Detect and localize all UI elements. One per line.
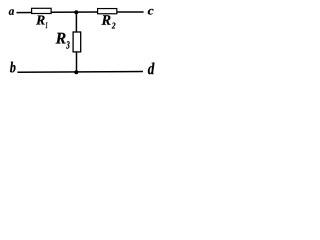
resistor R3 [73, 32, 81, 52]
label R3 [56, 33, 70, 49]
wire a to R1 [17, 11, 33, 13]
wire junction to R3 [75, 12, 77, 31]
label R2 [102, 15, 116, 28]
wire R1 to R2 [51, 11, 97, 13]
junction node bottom [74, 70, 78, 74]
wire R3 to bottom junction [76, 52, 78, 72]
node c [148, 9, 154, 15]
wire R2 to c [117, 11, 144, 13]
node b [10, 62, 15, 73]
wire b to d [17, 71, 143, 74]
node d [148, 63, 155, 75]
resistor R1 [32, 8, 51, 13]
resistor R2 [98, 9, 117, 14]
node a [9, 9, 14, 15]
junction node top [74, 10, 78, 14]
label R1 [36, 16, 47, 29]
